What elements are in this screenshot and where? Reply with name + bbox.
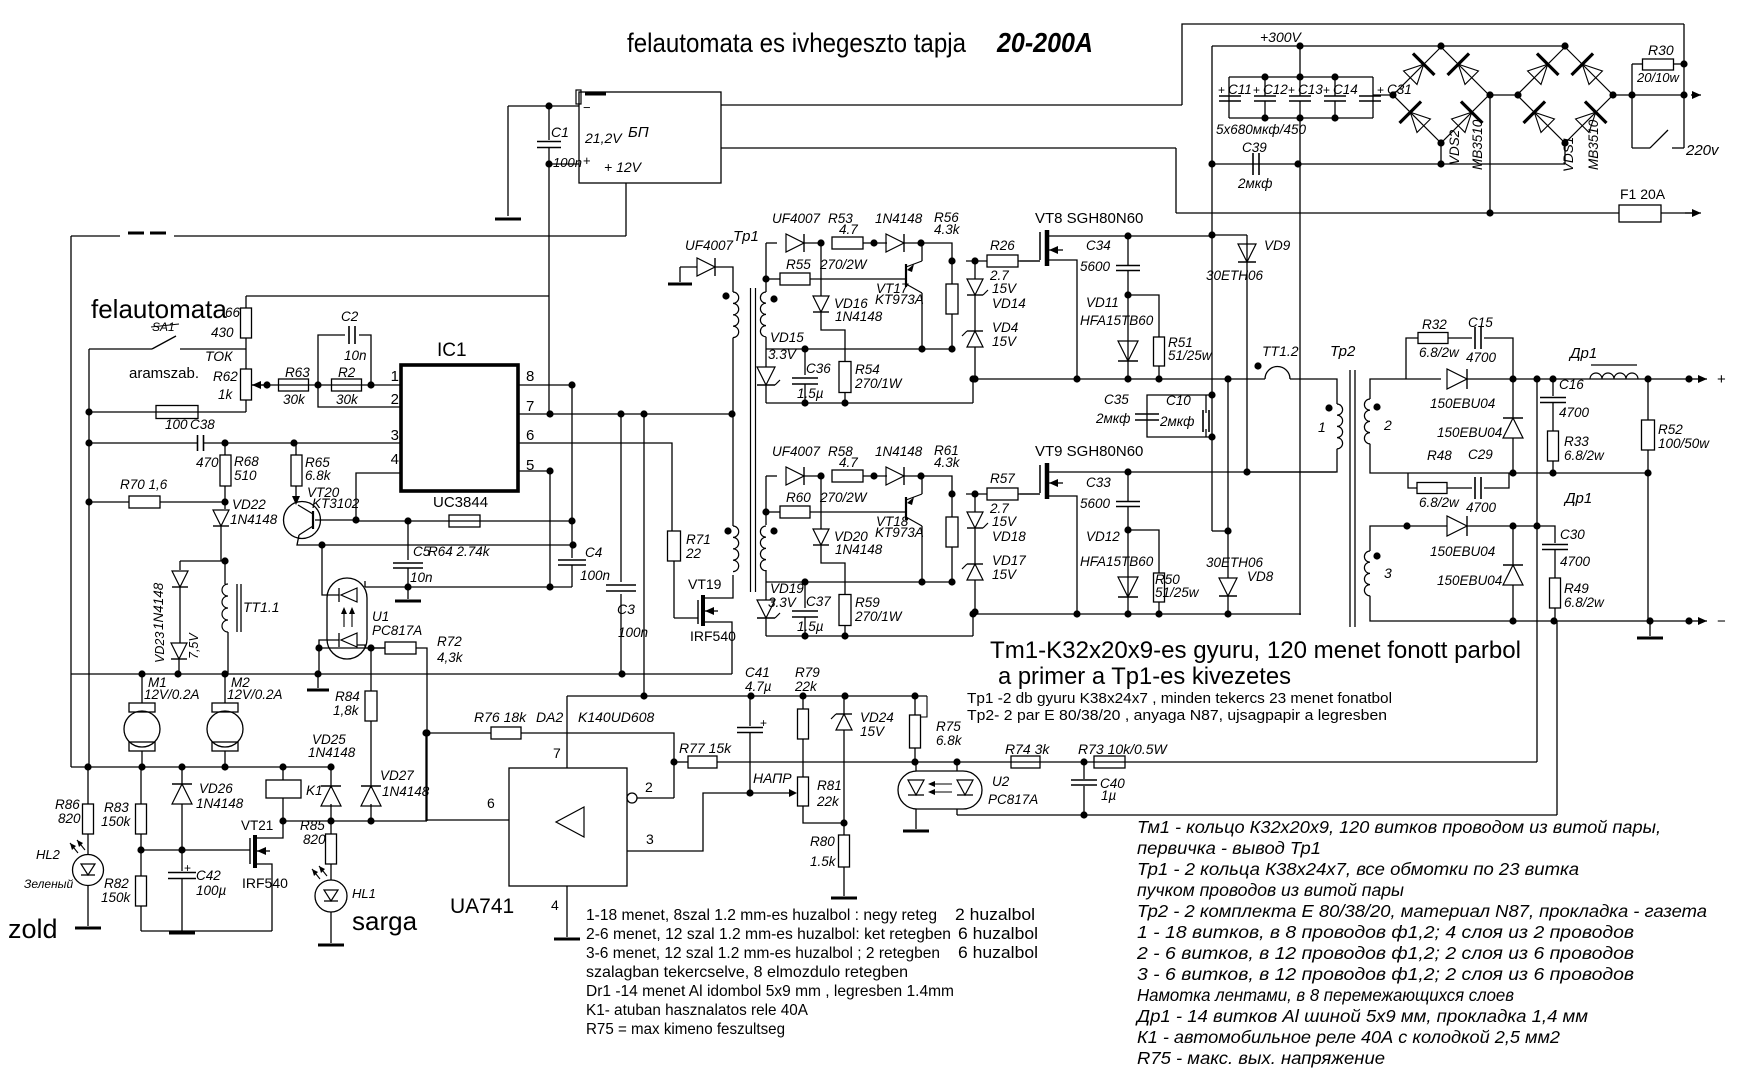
- svg-text:Тр2: Тр2: [1330, 343, 1356, 360]
- svg-text:270/2W: 270/2W: [819, 257, 868, 272]
- svg-text:+300V: +300V: [1260, 29, 1303, 45]
- wire VT9 emitter: [1047, 496, 1077, 614]
- TT1.2 dot: [1254, 362, 1261, 369]
- wire: [1552, 461, 1554, 473]
- capacitor C41: [737, 728, 763, 733]
- capacitor C11: [1219, 96, 1241, 101]
- wire snubber B right: [1484, 473, 1509, 488]
- node: [546, 467, 553, 474]
- svg-text:sarga: sarga: [352, 906, 418, 936]
- svg-text:R82: R82: [104, 876, 129, 891]
- svg-text:4700: 4700: [1559, 405, 1590, 420]
- svg-text:K140UD608: K140UD608: [578, 709, 654, 725]
- capacitor C5: [393, 563, 423, 568]
- svg-text:20/10w: 20/10w: [1636, 70, 1681, 85]
- node: [840, 819, 847, 826]
- svg-text:R74 3k: R74 3k: [1005, 741, 1050, 757]
- node: [422, 729, 429, 736]
- wire: [224, 502, 226, 509]
- wire: [951, 494, 953, 517]
- wire pin6: [426, 733, 509, 820]
- mains line to fuse F1: [1176, 212, 1619, 214]
- svg-text:C16: C16: [1559, 377, 1584, 392]
- svg-text:15V: 15V: [992, 281, 1018, 296]
- Tp2 winding 1: [1337, 404, 1343, 449]
- node: [1644, 469, 1651, 476]
- wire: [844, 393, 846, 403]
- svg-text:10n: 10n: [410, 570, 433, 585]
- node: [546, 410, 553, 417]
- svg-text:820: 820: [303, 832, 326, 847]
- node: [971, 257, 978, 264]
- svg-text:+: +: [1323, 83, 1330, 97]
- ground C5: [395, 600, 421, 603]
- svg-text:HL1: HL1: [352, 886, 376, 901]
- svg-text:1: 1: [1318, 419, 1326, 435]
- fuse tick on BP: [576, 90, 581, 104]
- svg-text:1N4148: 1N4148: [308, 745, 356, 760]
- node: [352, 516, 359, 523]
- wire R70 left: [89, 501, 129, 503]
- diode 1N4148: [172, 571, 188, 587]
- HL2 led symbol: [70, 840, 85, 853]
- vertical +300V to lower rail: [1299, 118, 1301, 615]
- wire U1 cathode to bus: [319, 640, 339, 674]
- resistor R51: [1154, 337, 1165, 366]
- diode VD11: [1118, 341, 1138, 361]
- transistor VT9 bar: [1045, 463, 1050, 499]
- node: [327, 817, 334, 824]
- resistor R72: [385, 642, 416, 654]
- wire: [802, 696, 804, 709]
- svg-text:TT1.2: TT1.2: [1262, 343, 1299, 359]
- wire VT19 drain: [705, 575, 733, 598]
- diode VD9: [1238, 244, 1256, 262]
- wire to 220v corner: [1182, 24, 1684, 105]
- wire R72 down: [416, 648, 427, 733]
- svg-text:470: 470: [196, 455, 219, 470]
- svg-text:270/1W: 270/1W: [854, 376, 903, 391]
- node: [1124, 291, 1131, 298]
- svg-text:270/1W: 270/1W: [854, 609, 903, 624]
- node: [1646, 617, 1653, 624]
- svg-text:UF4007: UF4007: [685, 238, 734, 253]
- capacitor C14: [1324, 96, 1346, 101]
- wire bridge to mains: [1489, 95, 1491, 213]
- node: [1685, 617, 1692, 624]
- node lower rail: [1073, 610, 1080, 617]
- wire: [181, 804, 183, 850]
- terminal arrow: [1691, 91, 1701, 99]
- capacitor C34: [1116, 266, 1140, 271]
- svg-text:VT21: VT21: [241, 818, 273, 833]
- node: [1437, 160, 1444, 167]
- resistor R74: [1011, 756, 1040, 768]
- svg-text:R77 15k: R77 15k: [679, 740, 732, 756]
- wire: [679, 267, 681, 282]
- U2 LED: [957, 780, 973, 795]
- svg-text:C12: C12: [1263, 82, 1288, 97]
- wire: [1674, 63, 1684, 65]
- svg-text:4.3k: 4.3k: [934, 222, 961, 237]
- svg-text:PC817A: PC817A: [372, 623, 422, 638]
- resistor R61: [946, 517, 958, 547]
- wire: [843, 696, 845, 714]
- capacitor C2: [349, 326, 355, 344]
- resistor R57: [987, 488, 1018, 500]
- svg-text:15V: 15V: [992, 514, 1018, 529]
- wire: [974, 261, 976, 279]
- wire VT8 collector rail: [1047, 235, 1212, 237]
- cap bank top bus: [1229, 76, 1373, 78]
- svg-text:пучком проводов из витой пары: пучком проводов из витой пары: [1137, 880, 1404, 900]
- svg-text:ТОК: ТОК: [205, 348, 233, 364]
- svg-text:6.8/2w: 6.8/2w: [1564, 448, 1605, 463]
- svg-text:2 huzalbol: 2 huzalbol: [955, 906, 1035, 924]
- node bus bottom: [327, 763, 334, 770]
- choke Dr1: [1590, 373, 1638, 379]
- svg-text:Др1: Др1: [1563, 490, 1592, 507]
- wire driver rail: [766, 581, 952, 583]
- wire: [245, 338, 247, 369]
- resistor R60: [780, 506, 810, 518]
- diode VD20: [813, 529, 829, 545]
- wire ground run: [141, 930, 272, 932]
- svg-text:+: +: [1218, 83, 1225, 97]
- resistor R50: [1154, 573, 1165, 602]
- svg-text:21,2V: 21,2V: [584, 130, 623, 146]
- wire to BP +: [549, 163, 579, 165]
- node: [801, 399, 808, 406]
- resistor R71: [668, 531, 681, 561]
- svg-text:C42: C42: [196, 868, 221, 883]
- diode VD12: [1118, 577, 1138, 597]
- svg-text:10n: 10n: [344, 348, 367, 363]
- capacitor C35: [1135, 414, 1159, 420]
- wire: [1127, 271, 1129, 378]
- wire: [330, 804, 332, 821]
- capacitor C3: [606, 585, 636, 591]
- svg-text:1.5µ: 1.5µ: [797, 386, 824, 401]
- Tp1 sec dot upper: [770, 295, 777, 302]
- svg-text:8: 8: [526, 368, 534, 385]
- diode 150EBU04 A: [1447, 369, 1467, 389]
- svg-text:zold: zold: [8, 914, 58, 944]
- TT1.1 core 2: [240, 584, 242, 632]
- svg-text:30ETH06: 30ETH06: [1206, 555, 1264, 570]
- wire VT21 source: [257, 864, 272, 931]
- bridge node: [1437, 139, 1444, 146]
- pin2 bubble: [627, 793, 637, 803]
- svg-text:+: +: [1717, 371, 1726, 388]
- svg-text:150EBU04: 150EBU04: [1430, 396, 1495, 411]
- emitter diag: [906, 494, 922, 500]
- node: [1680, 60, 1687, 67]
- wire: [178, 659, 180, 674]
- wire R76 line: [426, 732, 491, 734]
- resistor R54: [839, 362, 851, 393]
- transistor VT9 gate plate: [1039, 465, 1041, 493]
- node: [279, 817, 286, 824]
- node lower rail: [1155, 610, 1162, 617]
- capacitor C42: [168, 873, 196, 879]
- wire: [508, 105, 549, 107]
- svg-text:4.3k: 4.3k: [934, 455, 961, 470]
- node bus: [138, 670, 145, 677]
- svg-text:4: 4: [551, 897, 559, 913]
- svg-text:6.8k: 6.8k: [305, 468, 332, 483]
- transistor VT8 gate plate: [1039, 232, 1041, 260]
- svg-text:R83: R83: [104, 800, 129, 815]
- wire: [227, 632, 229, 674]
- svg-text:C35: C35: [1104, 392, 1129, 407]
- resistor R65: [291, 455, 302, 486]
- wire winding3 top: [1370, 526, 1407, 551]
- resistor R76: [491, 727, 521, 739]
- svg-text:R48: R48: [1427, 448, 1452, 463]
- wire: [220, 526, 222, 561]
- wire: [914, 748, 916, 762]
- wire BP out top: [721, 104, 1182, 106]
- potentiometer R62: [241, 369, 252, 400]
- svg-text:100/50w: 100/50w: [1658, 436, 1710, 451]
- diode UF4007 input: [697, 258, 715, 276]
- TT1.1 core: [236, 584, 238, 632]
- wire: [972, 614, 974, 636]
- wire U1 anode: [322, 545, 339, 595]
- svg-text:R85: R85: [300, 818, 325, 833]
- svg-text:15V: 15V: [992, 567, 1018, 582]
- svg-text:VDS2: VDS2: [1447, 129, 1462, 165]
- svg-text:DA2: DA2: [536, 709, 563, 725]
- svg-text:TT1.1: TT1.1: [243, 599, 280, 615]
- Tp2 core: [1349, 370, 1351, 627]
- wire wiper: [252, 384, 267, 386]
- wire: [87, 767, 89, 804]
- wire: [1334, 77, 1336, 96]
- resistor R73: [1094, 756, 1125, 768]
- wire: [974, 295, 976, 331]
- wire: [1407, 525, 1447, 527]
- svg-text:2мкф: 2мкф: [1159, 414, 1194, 429]
- svg-text:3-6 menet, 12 szal 1.2 mm-es h: 3-6 menet, 12 szal 1.2 mm-es huzalbol ; …: [586, 945, 940, 962]
- wire mid rail: [973, 378, 1243, 380]
- wire C10 loop: [1147, 395, 1212, 437]
- node: [1331, 114, 1338, 121]
- node: [569, 541, 576, 548]
- svg-text:1N4148: 1N4148: [196, 796, 244, 811]
- node: [1550, 617, 1557, 624]
- svg-text:VD11: VD11: [1086, 295, 1119, 310]
- svg-text:22k: 22k: [816, 794, 840, 809]
- wire: [1127, 507, 1129, 614]
- Dr1 core bar: [1591, 364, 1637, 366]
- bus bottom line: [71, 766, 331, 768]
- svg-text:VD26: VD26: [199, 781, 233, 796]
- capacitor C36: [792, 378, 818, 384]
- svg-text:R2: R2: [338, 365, 356, 380]
- svg-text:Tp1: Tp1: [733, 228, 759, 245]
- wire ring2 bottom: [766, 635, 973, 637]
- node: [762, 275, 769, 282]
- svg-text:6.8/2w: 6.8/2w: [1419, 495, 1460, 510]
- wire: [804, 242, 821, 244]
- svg-text:С38: С38: [190, 417, 215, 432]
- node: [1296, 73, 1303, 80]
- ground DA2: [554, 938, 580, 941]
- wire: [804, 617, 806, 636]
- node lower rail: [1224, 610, 1231, 617]
- svg-text:15V: 15V: [860, 724, 886, 739]
- wire VD9 vertical: [1246, 235, 1248, 472]
- wire: [749, 733, 751, 793]
- svg-text:6: 6: [526, 427, 534, 444]
- node: [1509, 617, 1516, 624]
- +12V bus: [567, 695, 927, 697]
- node: [367, 644, 374, 651]
- cap bank left edge: [1228, 77, 1230, 118]
- svg-text:C14: C14: [1333, 82, 1358, 97]
- wire right vertical: [1683, 24, 1685, 148]
- motor M2: [207, 711, 243, 747]
- node: [841, 399, 848, 406]
- svg-text:1N4148: 1N4148: [835, 542, 883, 557]
- zener VD17: [962, 564, 983, 580]
- svg-text:C2: C2: [341, 309, 359, 324]
- wire: [804, 384, 806, 403]
- svg-text:1,8k: 1,8k: [333, 703, 360, 718]
- node: [801, 345, 808, 352]
- node: [1261, 114, 1268, 121]
- vertical bus from +300V: [1211, 46, 1213, 531]
- svg-text:1N4148: 1N4148: [151, 582, 166, 630]
- svg-text:R62: R62: [213, 369, 238, 384]
- svg-text:felautomata es ivhegeszto tapj: felautomata es ivhegeszto tapja: [627, 28, 967, 58]
- wire lower rail: [973, 613, 1301, 615]
- vertical +300V upper: [1299, 46, 1301, 77]
- zener VD4: [962, 331, 983, 347]
- svg-text:HFA15TB60: HFA15TB60: [1080, 554, 1154, 569]
- svg-text:12V/0.2A: 12V/0.2A: [227, 687, 283, 702]
- wire ground stub: [317, 674, 319, 688]
- svg-text:a primer a Tp1-es kivezetes: a primer a Tp1-es kivezetes: [998, 663, 1291, 690]
- svg-text:VT19: VT19: [688, 576, 722, 592]
- Tp1 polarity dot: [722, 292, 729, 299]
- svg-text:C37: C37: [806, 594, 831, 609]
- diode 1N4148: [886, 467, 904, 485]
- svg-text:R54: R54: [855, 362, 880, 377]
- wire: [1672, 147, 1684, 149]
- VT20 collector diag: [299, 526, 313, 535]
- wire R67 line: [89, 411, 246, 413]
- node: [841, 632, 848, 639]
- svg-text:22: 22: [685, 546, 702, 561]
- svg-text:R60: R60: [786, 490, 811, 505]
- node: [1080, 811, 1087, 818]
- wire to R50: [1128, 530, 1159, 573]
- U1 top LED: [341, 633, 357, 647]
- wire: [87, 885, 89, 926]
- transistor VT8 bar: [1045, 230, 1050, 266]
- transistor VT9 arrow: [1049, 479, 1063, 487]
- node: [85, 439, 92, 446]
- wire pin7 up: [566, 696, 568, 768]
- capacitor C13: [1289, 96, 1311, 101]
- node: [1486, 209, 1493, 216]
- capacitor C38: [198, 435, 204, 451]
- svg-text:C34: C34: [1086, 238, 1111, 253]
- wire: [921, 243, 923, 261]
- wire AC stub: [1373, 94, 1393, 96]
- svg-text:IRF540: IRF540: [690, 628, 736, 644]
- wire U1 to R72: [357, 645, 385, 648]
- svg-text:1k: 1k: [218, 387, 234, 402]
- node: [1296, 42, 1303, 49]
- wire VT19 source: [705, 622, 732, 674]
- bridge VDS1 outline: [1517, 47, 1613, 143]
- svg-text:szalagban tekercselve, 8 elmoz: szalagban tekercselve, 8 elmozdulo reteg…: [586, 964, 908, 981]
- Tp2 winding 3: [1364, 551, 1370, 596]
- dash mark: [150, 232, 166, 235]
- R75 trim tap: [921, 696, 927, 717]
- wire: [766, 242, 777, 244]
- wire: [1127, 236, 1129, 265]
- wire: [180, 348, 246, 350]
- capacitor C40: [1071, 780, 1097, 785]
- node: [948, 257, 955, 264]
- node: [948, 578, 955, 585]
- node: [404, 583, 411, 590]
- wire: [765, 243, 767, 292]
- diode VD16: [813, 296, 829, 312]
- resistor R33: [1548, 431, 1559, 461]
- wire: [1018, 493, 1040, 495]
- svg-text:IRF540: IRF540: [242, 875, 288, 891]
- svg-text:1N4148: 1N4148: [835, 309, 883, 324]
- svg-text:2 - 6 витков, в 12 проводов ф1: 2 - 6 витков, в 12 проводов ф1,2; 2 слоя…: [1136, 943, 1634, 963]
- svg-text:VD23: VD23: [153, 632, 167, 663]
- svg-text:R64 2.74k: R64 2.74k: [428, 544, 491, 559]
- wire: [282, 767, 284, 780]
- wire minus rail: [1513, 620, 1689, 622]
- ground HL1: [318, 944, 344, 947]
- wire: [766, 475, 777, 477]
- node: [85, 408, 92, 415]
- svg-text:430: 430: [211, 325, 234, 340]
- wire: [810, 511, 905, 513]
- wire: [141, 674, 143, 703]
- wire: [140, 906, 142, 931]
- bridge node: [1514, 91, 1521, 98]
- svg-text:7,5V: 7,5V: [187, 632, 201, 659]
- node: [315, 644, 322, 651]
- switch lever: [1650, 130, 1668, 148]
- wire: [330, 864, 332, 880]
- Tp2 core 2: [1354, 370, 1356, 627]
- node: [1208, 391, 1215, 398]
- svg-text:+ 12V: + 12V: [604, 159, 643, 175]
- node: [801, 632, 808, 639]
- resistor R70: [129, 496, 160, 508]
- node: [1437, 42, 1444, 49]
- wire: [863, 475, 887, 477]
- svg-text:1-18 menet, 8szal 1.2 mm-es hu: 1-18 menet, 8szal 1.2 mm-es huzalbol : n…: [586, 907, 937, 924]
- node bus bottom: [279, 763, 286, 770]
- capacitor C37: [792, 611, 818, 617]
- svg-text:150k: 150k: [101, 814, 132, 829]
- wire: [224, 751, 226, 767]
- svg-text:UF4007: UF4007: [772, 444, 821, 459]
